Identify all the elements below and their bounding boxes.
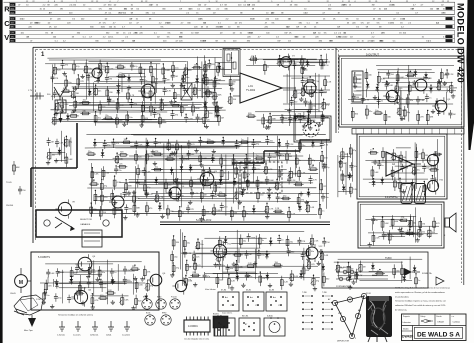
diode R390 [233,179,237,187]
resistor L319 [256,176,264,190]
potentiometer P131 [267,113,276,125]
tuner switch box [36,210,122,237]
capacitor T257 [154,139,162,148]
wire [315,73,317,118]
wire [133,134,302,136]
resistor L384 [94,112,101,126]
svg-text:1M: 1M [167,79,170,81]
capacitor P312 [123,189,132,198]
wire [289,65,291,126]
tube Q6 [147,271,166,289]
diode C264 [211,155,215,163]
svg-text:Vista Inferior: Vista Inferior [205,288,216,291]
resistor P227 [280,276,288,290]
wire [45,63,160,65]
wire [181,252,306,254]
potentiometer L270 [192,84,202,96]
capacitor P139 [99,279,107,288]
wire [85,59,87,99]
svg-text:1-Tantalo: 1-Tantalo [57,334,65,337]
diode D294 [414,69,418,77]
capacitor R316 [277,236,283,245]
potentiometer R387 [83,62,92,74]
svg-text:10u: 10u [102,272,105,274]
resistor D316 [172,262,180,276]
capacitor P273 [171,72,178,81]
svg-text:1M: 1M [425,155,428,157]
resistor P383 [368,150,378,155]
resistor T333 [145,150,153,164]
svg-text:4.7K: 4.7K [149,156,154,158]
svg-text:1n: 1n [282,155,284,157]
resistor C362 [355,269,363,283]
wire [253,56,255,65]
svg-text:DIN-A3: DIN-A3 [438,321,444,324]
capacitor T202 [245,250,252,259]
resistor R331 [94,190,102,204]
svg-text:1M: 1M [289,156,292,158]
ground [348,285,352,290]
audio field [363,139,442,195]
tube V13 [172,277,191,294]
svg-text:2.2K: 2.2K [314,240,319,242]
svg-text:22n: 22n [144,80,147,82]
svg-text:656: 656 [11,8,14,10]
capacitor L110 [183,249,192,258]
potentiometer T239 [202,61,210,73]
capacitor C136 [67,295,75,304]
wire [345,162,347,195]
svg-text:10u: 10u [187,243,190,245]
wire [304,92,327,94]
resistor P276 [305,78,315,83]
legend symbol 3 [90,321,99,337]
ground [111,279,115,284]
ground [205,177,209,182]
svg-text:1W: 1W [284,33,287,35]
wire [130,146,250,148]
resistor T168 [153,166,163,171]
resistor L322 [106,290,116,295]
parts list table [4,1,456,43]
ground [131,306,135,311]
ground [194,148,198,153]
svg-text:22n: 22n [127,270,130,272]
potentiometer P148 [289,270,299,282]
wire [401,261,403,283]
ground [172,151,176,156]
wire [223,271,256,273]
resistor C153 [349,183,357,197]
diode C305 [221,138,225,146]
potentiometer T186 [448,82,457,94]
IF transformer T1 [181,83,192,100]
ground [437,80,441,85]
wire [72,86,156,88]
ground [199,217,203,222]
resistor C162 [113,176,121,190]
diode L229 [116,87,120,95]
ground [60,109,64,114]
wire [111,141,216,143]
svg-text:TUBO: TUBO [385,257,392,260]
left film border stripe [0,0,3,343]
svg-text:342: 342 [11,23,14,25]
resistor T267 [205,139,215,144]
capacitor C394 [386,93,394,102]
svg-text:1n: 1n [189,266,191,268]
wire [193,257,195,258]
resistor C289 [373,110,383,115]
potentiometer L287 [183,275,193,287]
svg-text:4.7K: 4.7K [159,197,164,199]
svg-text:5-O/280/TS: 5-O/280/TS [38,257,50,259]
diode L143 [145,293,149,301]
wire [95,195,217,197]
resistor D135 [218,112,225,126]
resistor R178 [399,178,407,192]
resistor P364 [77,75,85,89]
tube V9 [424,151,442,168]
resistor P121 [302,264,310,278]
svg-text:1n: 1n [114,272,116,274]
power transistor package [213,314,228,337]
wire [368,232,419,234]
legend symbol 5 [122,321,130,337]
svg-text:1n: 1n [418,280,420,282]
wire [236,230,238,265]
svg-text:4.7K: 4.7K [313,180,318,182]
wire [369,181,416,183]
capacitor P300 [187,140,195,149]
diode L319 [307,189,311,197]
capacitor T230 [183,85,189,94]
wire [145,138,147,194]
resistor L189 [246,176,255,190]
capacitor D235 [430,176,438,185]
svg-text:1.5W: 1.5W [36,299,41,301]
potentiometer T268 [426,226,435,238]
wire [365,159,438,161]
resistor T392 [216,102,222,116]
capacitor C247 [247,233,257,242]
wire [144,160,146,182]
keyer box [294,116,331,142]
wire [182,232,184,285]
resistor P324 [127,89,135,103]
wire [195,247,260,249]
wire [400,90,402,121]
wire [93,142,275,144]
svg-text:22n: 22n [119,164,122,166]
resistor D280 [229,76,236,90]
capacitor T351 [190,189,199,198]
svg-text:1-Carbón: 1-Carbón [122,334,130,337]
valve base diagrams [142,297,180,326]
wire [382,81,453,83]
resistor R339 [192,65,202,70]
ground [212,101,216,106]
resistor C267 [245,155,252,169]
legend symbol 1 [57,321,65,337]
svg-text:en picofaradios.: en picofaradios. [395,296,410,298]
wire [61,131,63,162]
capacitor D246 [361,95,370,104]
resistor T184 [347,263,354,277]
capacitor L381 [140,76,148,85]
wire [409,257,411,280]
svg-text:Tensiones medidas sin señal: Tensiones medidas sin señal de antena [58,314,94,317]
resistor C310 [90,203,98,217]
IC DIP package [184,317,210,341]
wire [79,270,135,272]
ground [323,163,327,168]
potentiometer R275 [51,114,60,126]
wire [278,57,305,59]
svg-text:1M: 1M [221,118,224,120]
capacitor R302 [171,111,179,120]
wire [88,74,90,96]
svg-text:22n: 22n [196,257,199,259]
capacitor L206 [298,115,306,124]
resistor P272 [141,112,149,126]
potentiometer T207 [335,261,344,273]
svg-text:1n: 1n [322,211,324,213]
resistor P133 [400,151,407,165]
ground [431,109,435,114]
wire [334,261,403,263]
svg-text:22n: 22n [223,160,226,162]
diode D145 [158,203,162,211]
ground [275,151,279,156]
tube V11 [210,241,231,260]
capacitor T382 [400,228,410,237]
svg-text:1n: 1n [246,213,248,215]
ground [451,94,455,99]
wire [154,82,156,104]
svg-text:10u: 10u [102,107,105,109]
capacitor D386 [51,74,59,83]
wire [340,175,349,177]
svg-text:CH-05: CH-05 [10,293,17,295]
wire [70,137,72,155]
wire [202,78,204,99]
wire [396,147,411,149]
resistor D121 [296,114,306,119]
diode D216 [111,277,115,285]
potentiometer C363 [308,86,317,98]
svg-text:1n: 1n [344,176,346,178]
svg-text:2.2K: 2.2K [275,208,280,210]
wire [115,147,239,149]
potentiometer C379 [166,139,175,151]
svg-text:1n: 1n [381,101,383,103]
CRT box field [334,257,422,290]
svg-text:2.2K: 2.2K [407,72,412,74]
resistor D159 [111,189,118,203]
tube V5 [197,169,218,189]
resistor D253 [78,281,86,295]
resistor D336 [388,230,394,244]
ground [400,116,404,121]
resistor T257 [366,105,373,119]
resistor L348 [143,266,151,280]
wire [219,230,304,232]
svg-text:579: 579 [11,33,14,35]
tube V3 [278,54,296,71]
ground [107,97,111,102]
capacitor L162 [288,115,296,124]
svg-text:10u: 10u [391,97,394,99]
capacitor P173 [382,231,390,240]
resistor R352 [259,272,266,286]
svg-text:1W: 1W [135,33,138,35]
svg-text:T-786: T-786 [322,292,327,294]
wire [338,270,340,279]
diode D179 [66,113,70,121]
potentiometer R332 [395,92,404,104]
wire [318,74,320,112]
resistor D117 [417,110,425,124]
svg-text:1n: 1n [262,240,264,242]
wire [94,122,167,124]
ground [317,261,321,266]
resistor T167 [178,207,184,221]
ground [267,187,271,192]
wire [92,83,94,112]
ground [86,274,90,279]
potentiometer D257 [104,62,114,74]
resistor T178 [365,69,373,83]
svg-text:1M: 1M [218,80,221,82]
capacitor D298 [321,193,329,202]
wire [195,253,270,255]
resistor P325 [288,207,296,221]
wire [304,86,317,88]
svg-text:5.6K: 5.6K [50,273,55,275]
horizontal oscillator field [170,229,331,291]
ground [62,71,66,76]
diode L379 [311,140,315,148]
svg-text:T-786: T-786 [302,292,307,294]
svg-text:5%: 5% [167,37,170,39]
ground [173,178,177,183]
capacitor R289 [163,75,170,84]
svg-text:100K: 100K [269,180,274,182]
svg-text:4.7K: 4.7K [441,85,446,87]
wire [180,145,182,207]
ground [54,279,58,284]
resistor C202 [299,139,306,153]
resistor P318 [396,71,404,85]
resistor C173 [106,86,114,100]
wire [436,139,438,187]
wire [119,182,280,184]
svg-text:5.6K: 5.6K [94,174,99,176]
tube Q2 [412,76,431,94]
svg-text:DE WALD S A: DE WALD S A [417,332,460,339]
svg-text:1W: 1W [277,41,280,43]
svg-text:2.2K: 2.2K [138,145,143,147]
wire [351,103,445,105]
wire [255,111,322,113]
audio output box [357,134,447,199]
svg-text:C: C [4,19,10,28]
svg-text:4.7K: 4.7K [365,99,370,101]
flyback transformer [82,230,102,247]
resistor T371 [61,88,71,93]
resistor L318 [172,62,179,76]
svg-text:1n: 1n [281,240,283,242]
capacitor C246 [377,161,383,170]
wire [307,110,309,123]
capacitor C115 [134,141,143,150]
antenna [47,87,66,123]
ground [203,73,207,78]
svg-text:5.6K: 5.6K [68,159,73,161]
potentiometer P349 [436,79,446,91]
wire [365,219,403,221]
svg-text:1n: 1n [256,155,258,157]
diode R376 [429,85,433,93]
ground [193,282,197,287]
potentiometer L217 [183,64,192,76]
ground [267,125,271,130]
resistor L107 [43,289,50,303]
sound interstage transformer T2 [352,71,363,102]
svg-text:10u: 10u [343,163,346,165]
svg-text:1n: 1n [241,139,243,141]
svg-text:1W: 1W [330,41,333,43]
svg-text:6AW8: 6AW8 [303,117,310,120]
svg-text:DEFLECTOR: DEFLECTOR [337,341,350,343]
svg-text:1M: 1M [249,254,252,256]
svg-text:5.6K: 5.6K [124,300,129,302]
svg-text:5.6K: 5.6K [239,267,244,269]
diode T219 [424,72,428,80]
svg-text:Circuito integrado visto en ci: Circuito integrado visto en cima [184,338,209,341]
svg-text:5%: 5% [361,23,364,25]
svg-text:FUSIB. 2A: FUSIB. 2A [422,272,432,275]
resistor R326 [99,101,106,115]
antenna input connector [28,90,44,100]
potentiometer L228 [319,249,329,261]
svg-text:10u: 10u [200,244,203,246]
resistor D200 [433,217,441,231]
wire [158,183,280,185]
svg-text:1W: 1W [220,27,223,29]
resistor L174 [213,77,220,91]
wire [400,90,402,117]
resistor L175 [69,113,79,118]
capacitor C309 [187,150,195,159]
capacitor P160 [377,97,383,106]
diode L362 [306,59,310,67]
capacitor P326 [301,252,310,261]
ground [151,150,155,155]
capacitor L372 [322,238,330,247]
wire [318,162,320,211]
wire [372,221,374,231]
svg-text:10u: 10u [417,170,420,172]
svg-text:5.6K: 5.6K [145,107,150,109]
svg-text:22n: 22n [239,145,242,147]
svg-text:1-Electrol.: 1-Electrol. [90,334,99,337]
svg-text:2.2K: 2.2K [127,193,132,195]
wire [189,164,261,166]
diode L158 [96,75,100,83]
svg-text:1n: 1n [91,283,93,285]
